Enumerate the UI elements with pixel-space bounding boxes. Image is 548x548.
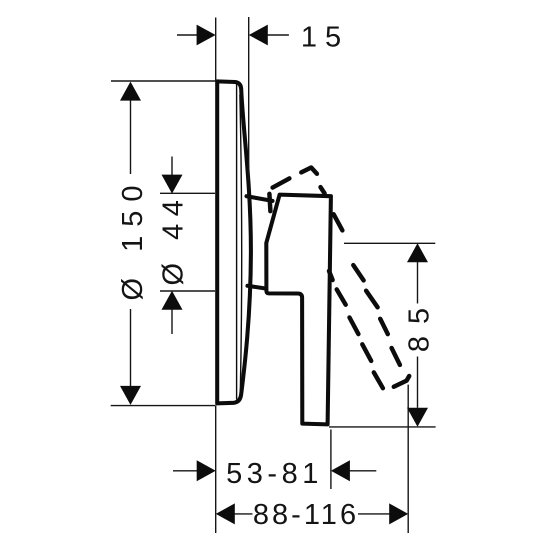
svg-text:Ø 44: Ø 44 (158, 193, 190, 286)
dashed handle: front edge dash 4 (366, 291, 378, 308)
extension line: plate bottom (O150) (111, 405, 216, 407)
dashed handle: front edge dash 1 (321, 187, 325, 193)
extension line: plate front for 15 (248, 17, 250, 180)
dashed handle: tip cap elbow (301, 168, 317, 174)
wall plate escutcheon (side view, thick outline) (217, 81, 251, 403)
extension line: 53-81 right (330, 430, 332, 490)
extension line: wall face (top) (215, 18, 217, 82)
extension line: wall face (bottom, to 53-81 / 88-116) (215, 406, 217, 533)
dim 53-81: left shaft (173, 470, 197, 472)
dim 88-116: right shaft (358, 513, 390, 515)
dim 85: upper shaft (417, 262, 419, 304)
arrow O150 top (points up) (120, 82, 141, 101)
extension line: sleeve bottom (O44) (160, 290, 215, 292)
arrowheads (120, 25, 428, 525)
dim 15: left shaft (177, 34, 197, 36)
dashed handle: back edge dash 5 (374, 372, 383, 388)
arrow 15 left (points right) (197, 25, 216, 46)
arrow 85 top (points up) (407, 243, 428, 262)
valve sleeve bottom edge (248, 286, 267, 289)
dimension texts (117, 22, 436, 532)
arrow O150 bottom (points down) (120, 386, 141, 405)
dashed handle: front edge dash 3 (353, 265, 363, 280)
svg-text:15: 15 (301, 22, 349, 54)
arrow 15 right (points left) (249, 25, 268, 46)
dim 15: right shaft (267, 34, 289, 36)
arrow 53-81 right (points left) (331, 460, 350, 481)
dashed handle: front edge dash 6 (392, 348, 400, 365)
dim O150: upper shaft (130, 100, 132, 174)
handle lever (solid position) (266, 195, 331, 425)
extension line: handle bottom (85 bottom) (329, 426, 436, 428)
arrow 85 bottom (points down) (407, 408, 428, 427)
svg-text:88-116: 88-116 (253, 499, 359, 531)
arrow 53-81 left (points right) (197, 460, 216, 481)
dashed handle: back edge dash 4 (362, 344, 371, 361)
dim O44: upper shaft (171, 157, 173, 176)
dashed handle: back edge dash 2 (337, 289, 346, 304)
dashed handle: front edge dash 2 (334, 214, 343, 230)
plate rim contour arc (thin) (240, 95, 242, 392)
valve sleeve top edge (247, 196, 273, 201)
arrow 88-116 left (points left) (216, 503, 235, 524)
plate front face contour line (thin) (236, 85, 238, 400)
extension line: plate top (O150) (111, 80, 216, 82)
dashed handle: back edge upper dash (273, 178, 290, 187)
dim O44: lower shaft (171, 310, 173, 335)
dashed handle: front edge dash 5 (380, 319, 388, 334)
extension line: sleeve top (O44) (160, 192, 215, 194)
svg-text:53-81: 53-81 (226, 458, 323, 490)
dim 53-81: right shaft (349, 470, 376, 472)
extension line: valve centre (85 top) (344, 242, 435, 244)
dashed handle alternate position: sleeve front tick (269, 194, 270, 211)
arrow 88-116 right (points right) (389, 503, 408, 524)
svg-text:Ø 150: Ø 150 (117, 177, 149, 301)
svg-text:85: 85 (404, 296, 436, 352)
dim 88-116: left shaft (234, 513, 253, 515)
dashed handle: bottom cap elbow (394, 376, 409, 387)
dashed handle: back edge dash 3 (350, 318, 359, 335)
extension line: 88-116 right (407, 385, 409, 533)
dim 85: lower shaft (417, 357, 419, 408)
dim O150: lower shaft (130, 309, 132, 387)
arrow O44 bottom (points up) (162, 291, 183, 310)
arrow O44 top (points down) (162, 175, 183, 194)
dimension linework (thin) (111, 17, 436, 533)
dashed handle: back edge dash on solid edge (329, 271, 333, 280)
